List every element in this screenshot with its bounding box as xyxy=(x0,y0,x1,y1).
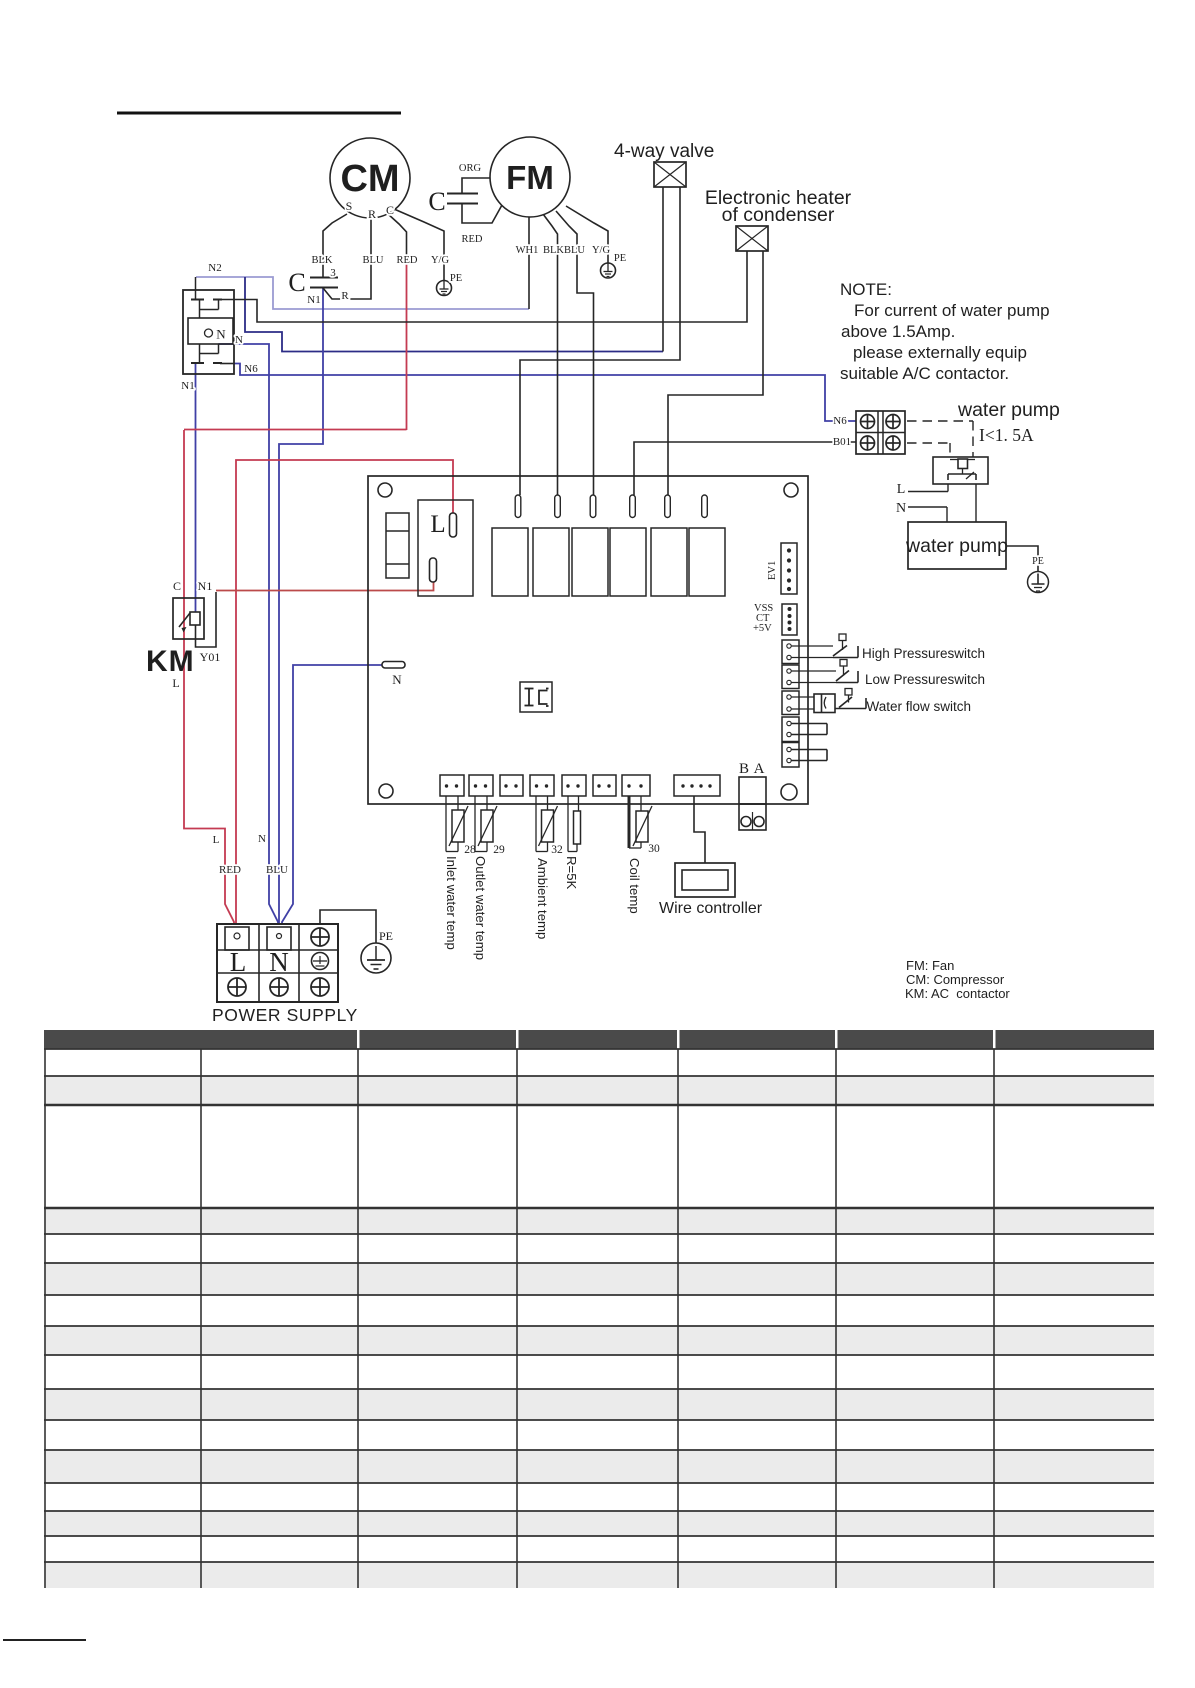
svg-text:N6: N6 xyxy=(244,363,258,375)
svg-text:NOTE:: NOTE: xyxy=(840,280,892,299)
svg-text:30: 30 xyxy=(648,843,660,855)
svg-text:N: N xyxy=(216,327,226,342)
wire: CM RED lead down to KM C junction (red) xyxy=(406,255,408,430)
PE ground (fan) xyxy=(601,253,627,278)
water pump feed wires xyxy=(908,484,976,522)
svg-text:BLKBLU: BLKBLU xyxy=(543,245,585,256)
svg-text:N1: N1 xyxy=(307,294,320,306)
svg-text:N: N xyxy=(896,501,906,516)
wire: power supply L to PCB L pin (red) xyxy=(236,460,453,925)
svg-text:Water flow switch: Water flow switch xyxy=(867,699,972,714)
svg-text:POWER SUPPLY: POWER SUPPLY xyxy=(212,1005,358,1025)
svg-text:RED: RED xyxy=(219,864,241,876)
wire: CM R lead to capacitor bottom plate (BLU) xyxy=(323,216,371,299)
wire: FM WH1 lead down to neutral node xyxy=(528,217,530,309)
svg-text:Inlet water temp: Inlet water temp xyxy=(444,856,459,950)
PCB L input box with pins xyxy=(418,500,473,596)
wire: PCB N pin to power supply N (blue) xyxy=(282,665,382,925)
svg-text:N: N xyxy=(269,947,289,977)
svg-text:Y01: Y01 xyxy=(200,650,221,664)
wire: N2 neutral line from contactor to FM WH1 node (lavender) xyxy=(196,277,529,309)
water pump box xyxy=(905,522,1008,569)
wire: neutral branch from N2 node down to power supply N (navy) xyxy=(245,277,663,352)
svg-text:A: A xyxy=(754,761,765,777)
PCB N pin xyxy=(382,662,405,688)
connector: water flow switch input xyxy=(782,691,799,715)
main control PCB outline xyxy=(368,476,808,804)
wire: B01 terminal to PCB pin 4 xyxy=(634,442,856,495)
svg-text:Y/G: Y/G xyxy=(431,255,450,266)
svg-text:3: 3 xyxy=(330,267,336,279)
wire: CM Y/G lead to PE xyxy=(394,209,444,280)
connector: jumper J1 xyxy=(782,717,827,742)
B A communication terminal xyxy=(739,761,766,830)
legend xyxy=(905,958,1010,1001)
svg-text:C: C xyxy=(288,268,305,297)
svg-text:WH1: WH1 xyxy=(516,245,539,256)
svg-text:PE: PE xyxy=(614,253,626,264)
sensor 28 inlet water temp xyxy=(446,796,468,852)
svg-text:I<1. 5A: I<1. 5A xyxy=(979,425,1034,445)
dashed wires to water pump relay xyxy=(907,421,973,457)
svg-text:R: R xyxy=(368,207,376,221)
high pressure switch xyxy=(791,634,985,661)
wire: KM Y01 to PCB lower pin (red) xyxy=(216,579,434,591)
wire: horizontal red jumper KM C to CM RED (red) xyxy=(184,429,407,431)
wire: KM C vertical through contact to power supply L (red) xyxy=(184,430,234,925)
contactor KM xyxy=(146,579,220,690)
wire: FM BLK lead to PCB pin 2 xyxy=(543,214,558,495)
svg-text:please externally equip: please externally equip xyxy=(853,343,1027,362)
svg-text:RED: RED xyxy=(397,255,418,266)
wire: compressor run/neutral branch from capacitor down to power supply N (blue) xyxy=(279,288,323,925)
wire: PCB connector to wire controller xyxy=(694,796,705,863)
wire: FM Y/G lead to PE xyxy=(566,206,608,263)
relay K3 xyxy=(572,528,608,596)
svg-text:S: S xyxy=(346,199,353,213)
connector EV1 xyxy=(767,543,797,594)
svg-text:Outlet water temp: Outlet water temp xyxy=(473,856,488,960)
PE ground (power supply) xyxy=(361,929,393,973)
PE ground (compressor) xyxy=(437,273,463,296)
svg-text:ORG: ORG xyxy=(459,163,482,174)
wire: KM Y01 hook (black) xyxy=(196,592,217,647)
svg-text:Coil temp: Coil temp xyxy=(627,858,642,914)
specification table xyxy=(44,1030,1154,1588)
svg-text:Wire controller: Wire controller xyxy=(659,900,763,917)
wire: FM BLU lead to PCB pin 3 xyxy=(556,211,594,495)
svg-text:Low Pressureswitch: Low Pressureswitch xyxy=(865,672,985,687)
power supply terminal block xyxy=(212,924,358,1025)
wire: electronic heater right lead to PCB pin 5 xyxy=(668,251,763,495)
low pressure switch xyxy=(791,660,985,688)
wire: contactor N1 terminal down to KM coil (blue) xyxy=(195,363,197,613)
svg-text:N6: N6 xyxy=(833,415,847,427)
relay K5 xyxy=(651,528,687,596)
svg-text:B: B xyxy=(739,761,749,777)
NOTE block xyxy=(840,280,1050,383)
PCB input pins row xyxy=(515,495,707,518)
sensor 30 coil temp xyxy=(629,796,652,848)
svg-text:B01: B01 xyxy=(833,436,851,448)
water flow switch xyxy=(791,689,971,715)
wire: power supply earth to PE xyxy=(320,910,376,943)
svg-text:above 1.5Amp.: above 1.5Amp. xyxy=(841,322,955,341)
wire: 4-way valve right lead to PCB pin 1 xyxy=(520,187,680,495)
svg-text:CM: CM xyxy=(340,158,399,200)
resistor R=5K xyxy=(568,796,581,852)
svg-text:of condenser: of condenser xyxy=(722,204,835,226)
svg-text:C: C xyxy=(386,203,394,217)
fan motor FM xyxy=(490,137,570,217)
svg-text:water pump: water pump xyxy=(957,399,1060,421)
svg-text:For current of water pump: For current of water pump xyxy=(854,301,1050,320)
svg-text:BLU: BLU xyxy=(363,255,384,266)
svg-text:CM: Compressor: CM: Compressor xyxy=(906,972,1005,987)
footer rule xyxy=(3,1639,86,1641)
svg-text:N: N xyxy=(235,334,243,346)
PE ground (water pump) xyxy=(1006,546,1049,593)
svg-text:Y/G: Y/G xyxy=(592,245,611,256)
svg-text:N: N xyxy=(258,833,266,845)
svg-text:FM: Fan: FM: Fan xyxy=(906,958,954,973)
wire: 4-way valve left lead down to blue node xyxy=(662,187,664,352)
wire: N6 line from contactor to water pump terminal (blue) xyxy=(233,364,856,422)
svg-text:L: L xyxy=(430,511,445,538)
connector VSS/CT/+5V xyxy=(753,603,797,635)
svg-text:N1: N1 xyxy=(181,380,194,392)
relay K2 xyxy=(533,528,569,596)
svg-text:L: L xyxy=(213,834,220,846)
svg-text:Ambient temp: Ambient temp xyxy=(535,858,550,939)
svg-text:KM: KM xyxy=(146,645,195,678)
svg-text:32: 32 xyxy=(551,844,563,856)
water pump relay/contactor xyxy=(933,457,988,484)
capacitor C (fan) xyxy=(428,163,483,245)
svg-text:EV1: EV1 xyxy=(767,561,778,580)
compressor motor CM xyxy=(330,138,410,221)
wire: CM C lead down (RED label) xyxy=(388,214,407,257)
svg-text:High Pressureswitch: High Pressureswitch xyxy=(862,646,985,661)
svg-text:water pump: water pump xyxy=(905,535,1008,557)
svg-text:PE: PE xyxy=(379,929,393,943)
connector: jumper J2 xyxy=(782,743,827,768)
svg-text:4-way valve: 4-way valve xyxy=(614,141,714,162)
svg-text:BLU: BLU xyxy=(266,864,288,876)
capacitor C (compressor) xyxy=(288,267,349,306)
svg-text:N1: N1 xyxy=(198,579,213,593)
svg-text:N2: N2 xyxy=(208,262,221,274)
water pump terminal N6/B01 xyxy=(833,411,905,454)
svg-text:PE: PE xyxy=(1032,556,1044,567)
connector: low pressure switch input xyxy=(782,665,799,689)
svg-text:29: 29 xyxy=(493,844,505,856)
wire: contactor output to electronic heater left lead xyxy=(214,251,747,322)
4-way valve xyxy=(614,141,714,187)
svg-text:R: R xyxy=(341,290,349,302)
sensor 32 ambient temp xyxy=(536,796,558,852)
wire: contactor N terminal to power supply N (blue) xyxy=(219,344,279,925)
relay K6 xyxy=(689,528,725,596)
svg-text:PE: PE xyxy=(450,273,462,284)
svg-text:KM: AC contactor: KM: AC contactor xyxy=(905,986,1010,1001)
svg-text:FM: FM xyxy=(506,159,554,196)
svg-text:N: N xyxy=(392,672,402,687)
svg-text:28: 28 xyxy=(464,844,476,856)
svg-text:C: C xyxy=(428,187,445,216)
relay K4 xyxy=(610,528,646,596)
sensor 29 outlet water temp xyxy=(475,796,497,852)
svg-text:suitable A/C contactor.: suitable A/C contactor. xyxy=(840,364,1009,383)
svg-text:RED: RED xyxy=(462,234,483,245)
svg-text:+5V: +5V xyxy=(753,623,772,634)
AC contactor block (top-left relay) xyxy=(181,262,258,392)
svg-text:C: C xyxy=(173,579,181,593)
svg-text:BLK: BLK xyxy=(312,255,333,266)
sensor connector row on PCB xyxy=(440,775,720,796)
electronic heater of condenser xyxy=(705,187,852,251)
svg-text:L: L xyxy=(172,676,179,690)
wire: FM capacitor bottom plate to FM (RED) xyxy=(462,204,502,223)
svg-text:L: L xyxy=(230,947,247,977)
svg-text:L: L xyxy=(897,482,906,497)
svg-text:R=5K: R=5K xyxy=(564,856,579,890)
connector: high pressure switch input xyxy=(782,640,799,664)
fuse on PCB xyxy=(386,513,409,578)
wire: CM S lead to capacitor top plate (BLK) xyxy=(323,214,347,277)
IC chip xyxy=(520,682,552,712)
relay K1 xyxy=(492,528,528,596)
wire: FM capacitor top plate to FM (ORG) xyxy=(462,178,490,193)
wire controller xyxy=(659,863,763,917)
title underline xyxy=(117,112,401,115)
